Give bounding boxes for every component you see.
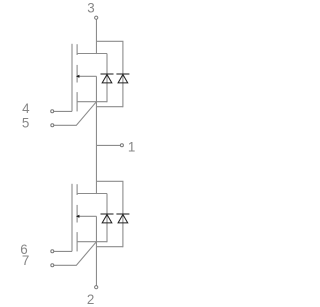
- terminal circle 3: [95, 16, 98, 19]
- wire: D1 anode return to source: [96, 106, 122, 108]
- wire: right diode D3 lower lead: [122, 214, 124, 247]
- channel dashes Q2: [76, 184, 78, 195]
- wire: right diode D1 lower lead: [122, 74, 124, 107]
- wire: main bus from Q1 body/source down to Q2 drain stub: [95, 76, 97, 194]
- terminal circle 2: [95, 286, 98, 289]
- diode D4 (bottom-left): cathode bar: [101, 213, 114, 215]
- diode D3 (bottom-right): cathode bar: [116, 213, 129, 215]
- wire: node 1 stub: [96, 144, 120, 146]
- diode D2 (top-left): cathode bar: [101, 73, 114, 75]
- diode D1 (top-right): cathode bar: [116, 73, 129, 75]
- gate line Q2: [71, 184, 73, 252]
- wire: Q2 body stub: [79, 215, 96, 217]
- wire: drain stub of Q1: [77, 53, 107, 55]
- terminal circle 1: [120, 144, 123, 147]
- wire: source stub of Q1: [77, 101, 107, 103]
- wire: drain stub of Q2: [77, 193, 107, 195]
- svg-text:7: 7: [22, 253, 29, 268]
- svg-text:2: 2: [87, 292, 94, 307]
- terminal circle 4: [51, 110, 54, 113]
- body arrow Q1: [76, 75, 79, 78]
- wire: left diode D4 lead: [106, 194, 108, 243]
- svg-text:1: 1: [128, 140, 135, 155]
- wire: pin 6 to gate Q2: [54, 250, 72, 252]
- wire: source stub of Q2: [77, 241, 107, 243]
- svg-text:4: 4: [22, 101, 30, 116]
- wire: pin 4 to gate Q1: [54, 110, 72, 112]
- wire: main bus from Q2 body/source down to terminal 2: [95, 216, 97, 285]
- terminal circle 6: [51, 250, 54, 253]
- wire: D3 anode return to source: [96, 246, 122, 248]
- wire: terminal 3 to drain stub: [95, 19, 97, 54]
- diode D2 triangle: [102, 75, 112, 83]
- terminal circle 7: [51, 264, 54, 267]
- wire: branch to right diode D1 cathode: [96, 41, 122, 74]
- diode D3 triangle: [118, 215, 128, 223]
- svg-text:5: 5: [22, 115, 29, 130]
- channel dashes Q1: [76, 44, 78, 55]
- diode D4 triangle: [102, 215, 112, 223]
- wire: Q1 body stub: [79, 75, 96, 77]
- body arrow Q2: [76, 215, 79, 218]
- diode D1 triangle: [118, 75, 128, 83]
- wire: branch to right diode D3 cathode: [96, 181, 122, 214]
- wire: pin 7 kelvin source Q2: [54, 242, 96, 266]
- wire: left diode D2 lead: [106, 54, 108, 103]
- svg-text:3: 3: [87, 1, 94, 16]
- wire: pin 5 kelvin source Q1: [54, 102, 96, 126]
- gate line Q1: [71, 44, 73, 112]
- terminal circle 5: [51, 124, 54, 127]
